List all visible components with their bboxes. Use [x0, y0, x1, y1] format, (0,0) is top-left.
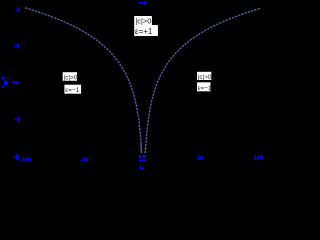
y axis title cluster [2, 77, 10, 88]
svg-text:|c|>0: |c|>0 [64, 74, 78, 81]
box A1 [134, 16, 152, 25]
svg-text:-50: -50 [81, 157, 89, 163]
curve cusp right vertical [144, 144, 147, 153]
y tick 0 [13, 81, 20, 83]
svg-text:-4: -4 [14, 116, 20, 123]
x tick labels [20, 156, 263, 164]
svg-text:-8: -8 [13, 154, 19, 161]
top arrow [138, 1, 148, 6]
curve left branch [25, 8, 142, 152]
box C2 [197, 82, 212, 92]
svg-text:ε=−1: ε=−1 [65, 87, 79, 94]
svg-text:|c|>0: |c|>0 [198, 74, 212, 81]
box C1 [197, 72, 212, 81]
x axis title c-bar [139, 160, 146, 169]
svg-text:-100: -100 [20, 158, 31, 164]
svg-text:ε=+1: ε=+1 [135, 27, 153, 36]
box B1 [63, 72, 78, 81]
curve right branch [145, 8, 260, 153]
svg-text:100: 100 [254, 156, 263, 162]
curve cusp left vertical [140, 144, 143, 153]
svg-text:|c|>0: |c|>0 [135, 16, 151, 25]
svg-text:50: 50 [197, 156, 203, 162]
center 0 label [139, 155, 146, 159]
box B2 [64, 85, 81, 95]
y tick labels [14, 7, 21, 50]
svg-text:-4: -4 [14, 43, 20, 50]
svg-text:ε=−1: ε=−1 [198, 85, 212, 92]
box A2 [134, 25, 158, 36]
svg-text:8: 8 [16, 7, 20, 14]
